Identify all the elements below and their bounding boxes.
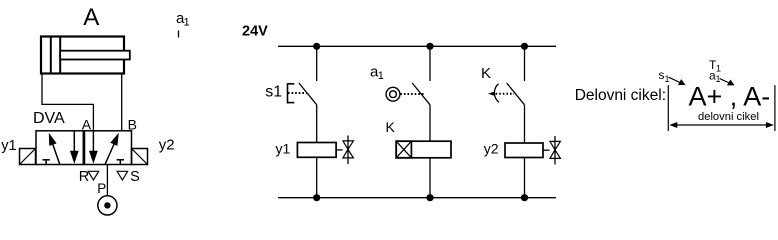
svg-text:s1: s1 xyxy=(265,84,282,101)
svg-text:K: K xyxy=(481,65,491,82)
svg-text:1: 1 xyxy=(665,74,670,84)
svg-text:1: 1 xyxy=(716,64,721,74)
svg-text:B: B xyxy=(128,117,137,133)
svg-text:1: 1 xyxy=(184,17,190,29)
svg-text:y1: y1 xyxy=(1,138,16,154)
svg-text:DVA: DVA xyxy=(33,110,65,127)
svg-text:A+ , A-: A+ , A- xyxy=(689,81,771,111)
svg-text:24V: 24V xyxy=(242,23,268,39)
svg-text:Delovni cikel:: Delovni cikel: xyxy=(575,87,666,104)
svg-text:S: S xyxy=(130,169,140,185)
svg-text:R: R xyxy=(79,169,89,185)
svg-text:1: 1 xyxy=(378,70,384,82)
svg-text:delovni cikel: delovni cikel xyxy=(698,111,759,123)
svg-text:A: A xyxy=(83,4,99,31)
svg-text:y2: y2 xyxy=(159,137,175,154)
svg-text:A: A xyxy=(82,117,92,133)
svg-text:K: K xyxy=(386,119,396,135)
svg-text:P: P xyxy=(97,181,106,196)
svg-text:y2: y2 xyxy=(484,141,499,157)
svg-text:y1: y1 xyxy=(276,141,291,157)
